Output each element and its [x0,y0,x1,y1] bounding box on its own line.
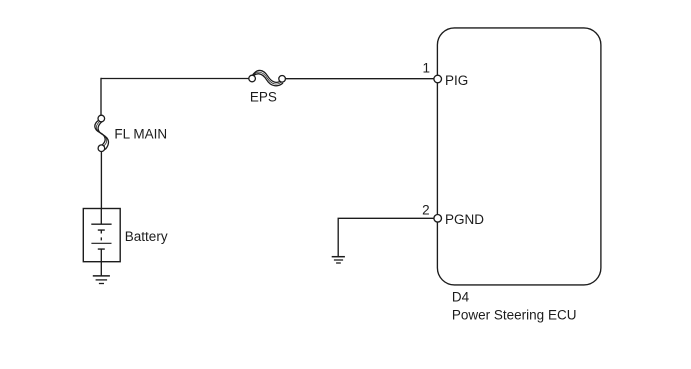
battery plate long 2 [91,242,111,244]
fuse EPS left terminal circle [249,75,256,82]
svg-text:Power Steering ECU: Power Steering ECU [452,307,577,322]
wire: pin 2 PGND to ground [338,218,434,256]
fuse FL MAIN (fusible link ribbon, vertical) [95,120,109,150]
svg-text:2: 2 [422,203,430,218]
ground (battery) [93,276,110,284]
svg-text:1: 1 [422,60,430,75]
battery plate short T 1 [98,230,105,233]
svg-text:Battery: Battery [125,229,168,244]
wire: vertical from corner down to FL MAIN fuse [100,78,102,116]
wire: EPS fuse to pin 1 [285,78,434,80]
ground (PGND) [332,257,345,263]
battery internal wire from top [100,209,102,225]
svg-text:PGND: PGND [445,212,484,227]
svg-text:D4: D4 [452,290,470,305]
wire: top horizontal from corner to EPS fuse [101,78,249,80]
pin 2 circle (PGND) [434,215,442,223]
fuse EPS (fusible link ribbon) [251,70,283,85]
svg-text:EPS: EPS [250,89,277,104]
svg-text:PIG: PIG [445,73,468,88]
ECU box D4 [437,28,601,285]
battery plate long 1 [91,223,111,225]
battery box [83,209,120,262]
fuse FL MAIN bottom terminal circle [98,145,105,152]
wire: battery to ground [100,262,102,276]
battery cell dash [100,237,102,240]
svg-text:FL MAIN: FL MAIN [114,126,167,141]
pin 1 circle (PIG) [434,75,442,83]
wire: FL MAIN fuse down to battery [100,151,102,208]
battery plate short T 2 [98,249,105,262]
fuse EPS right terminal circle [279,76,286,83]
fuse FL MAIN top terminal circle [98,115,105,122]
